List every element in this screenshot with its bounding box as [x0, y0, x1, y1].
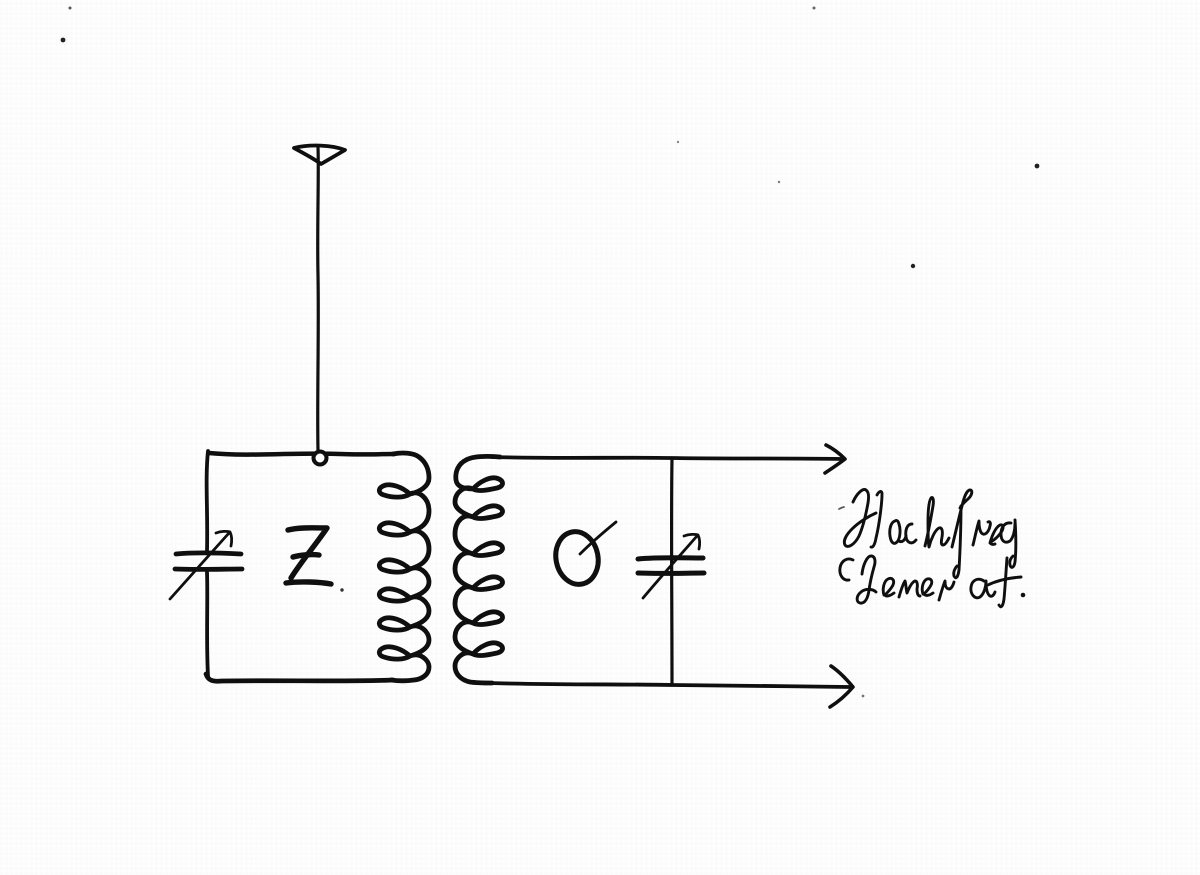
wire left side lower: [207, 572, 208, 676]
capacitor C1 bottom plate: [175, 567, 242, 572]
label Z: [286, 528, 331, 584]
label O slash: [580, 522, 616, 554]
capacitor C2 bottom plate: [638, 571, 704, 576]
arrowhead bottom output: [830, 666, 853, 707]
speck right mid: [911, 264, 915, 268]
speck top-middle: [813, 7, 816, 10]
antenna A1: [294, 146, 345, 164]
speck upper-left: [61, 38, 66, 43]
inductor L1 left coil: [379, 453, 429, 681]
capacitor C1 arrow: [170, 531, 232, 599]
speck right of antenna: [778, 181, 780, 183]
wire antenna lead: [316, 147, 320, 450]
wire top of right loop: [492, 457, 842, 459]
speck near antenna right: [677, 141, 679, 143]
handwriting word Hochfreq: [844, 490, 1015, 578]
wire C2 branch: [670, 459, 674, 685]
label O: [551, 528, 602, 588]
handwriting word Generat.: [840, 556, 1021, 607]
wire bottom of left loop: [206, 674, 393, 681]
inductor L2 right coil: [455, 456, 503, 683]
arrowhead top output: [825, 445, 845, 473]
speck dash before Hochfreq: [839, 507, 844, 509]
wire top of left tank loop: [209, 453, 394, 455]
wire bottom of right loop: [488, 683, 849, 687]
speck period after Generat: [1021, 593, 1026, 598]
capacitor C2 arrow: [643, 534, 700, 598]
node A antenna tap: [314, 452, 327, 465]
speck after Z: [340, 588, 343, 591]
capacitor C2 top plate: [638, 558, 703, 559]
speck far right: [1035, 164, 1040, 169]
speck below bottom arrow: [862, 695, 865, 698]
capacitor C1 top plate: [176, 553, 241, 554]
wire left side upper: [207, 451, 208, 551]
speck top-left faint: [69, 7, 72, 10]
